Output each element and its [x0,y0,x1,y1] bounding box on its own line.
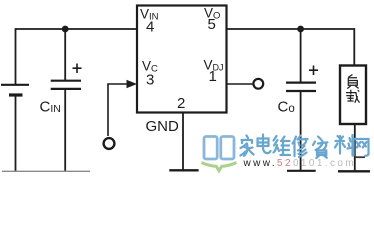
char 料 [335,135,353,156]
ground bar load [338,170,370,172]
wire: VC control branch horizontal [107,83,128,85]
svg-text:CIN: CIN [40,99,61,116]
wire: Co top drop [300,29,302,82]
capacitor Co top plate [286,81,316,83]
ground bar Co [287,170,316,172]
load label 载 (CJK drawn as strokes) [346,90,360,103]
small tick right of load wire [355,156,365,158]
wire: battery top drop [15,28,17,84]
svg-text:2: 2 [177,95,185,112]
watermark text 家电维修资料网 (drawn strokes) [241,135,369,159]
battery B1 positive plate [1,84,29,86]
node junction dot right [297,26,304,33]
battery B1 negative plate [9,93,23,96]
svg-text:4: 4 [146,19,154,36]
char 网 [354,139,369,156]
char 修 [293,136,308,158]
char 家 [241,136,254,157]
ground bar pin2 [169,169,198,171]
capacitor CIN top plate [51,80,81,82]
wire: VDJ stub [227,83,253,85]
char 维 [274,136,291,155]
wire: Co bottom drop [300,92,302,170]
watermark book icon [204,137,234,160]
wire: battery bottom drop [15,96,17,171]
arrowhead into pin VC [127,80,138,88]
wire: GND pin 2 drop [182,113,184,170]
Co plus sign [309,66,318,76]
watermark book base (green) [202,163,237,171]
load box (resistive load) [340,66,366,125]
wire: bottom-left ground rail [2,170,90,172]
capacitor CIN bottom plate [51,88,81,90]
terminal node circle (adjust output) [253,79,263,89]
wire: top-left rail [16,28,138,30]
wire: top-right rail [227,29,354,65]
svg-text:Co: Co [278,99,295,116]
wire: VC control branch vertical [107,84,109,136]
IC U1 body [137,6,227,113]
svg-text:www.520101.com: www.520101.com [243,158,357,169]
svg-text:1: 1 [209,68,217,85]
load label 负 (CJK drawn as strokes) [347,75,358,89]
wire: load bottom drop [354,125,356,171]
svg-text:5: 5 [208,16,216,33]
node junction dot left [62,26,69,33]
svg-text:3: 3 [146,72,154,89]
char 资 [313,137,328,159]
CIN plus sign [73,64,82,74]
char 电 [258,135,271,154]
svg-text:GND: GND [146,118,180,135]
wire: CIN bottom drop [64,90,66,171]
terminal node circle (control input) [104,138,115,149]
capacitor Co bottom plate [286,90,316,92]
wire: CIN top drop [64,29,66,80]
